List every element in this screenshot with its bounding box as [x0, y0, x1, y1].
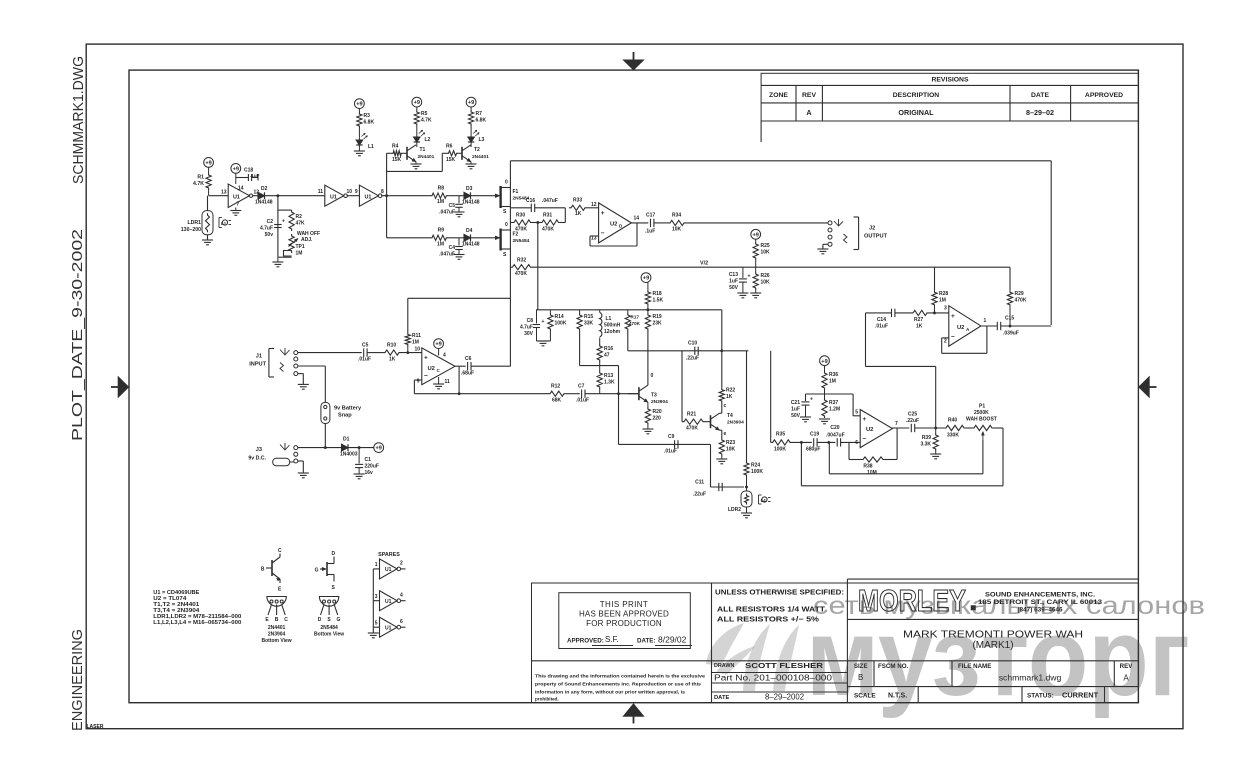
right alignment arrow — [1139, 376, 1157, 397]
wire R24 column from C10 row — [746, 351, 748, 461]
svg-text:.1uF: .1uF — [250, 173, 260, 178]
wire R17 down to C10 row — [627, 331, 629, 351]
resistor R29 470K — [1007, 290, 1026, 325]
wire U2A feedback — [942, 326, 987, 353]
svg-text:470K: 470K — [515, 271, 527, 277]
svg-text:1K: 1K — [389, 357, 396, 363]
svg-text:3: 3 — [375, 594, 378, 600]
resistor R17 470K — [625, 310, 640, 331]
tolerance note panel — [715, 589, 844, 624]
svg-text:R17: R17 — [631, 315, 640, 320]
svg-text:10M: 10M — [867, 470, 877, 476]
power +9 at U1 pin14 — [231, 164, 241, 185]
inverter U1 pin11/10 — [318, 185, 353, 206]
wire junction vertical to LED driver row and R9 row — [386, 153, 388, 238]
wire R30-R31 junction — [533, 221, 541, 224]
svg-text:470K: 470K — [1015, 298, 1027, 304]
svg-text:1: 1 — [375, 562, 378, 568]
svg-text:1uF: 1uF — [791, 407, 800, 413]
ground under R20 — [642, 429, 653, 434]
svg-text:10K: 10K — [672, 227, 682, 233]
wire P1 output loop — [801, 428, 1003, 486]
wire R34 to J2 output jack — [686, 222, 828, 224]
svg-text:0: 0 — [651, 373, 654, 379]
svg-text:2: 2 — [944, 339, 947, 345]
svg-text:+9: +9 — [468, 100, 474, 106]
resistor R31 470K — [540, 213, 565, 233]
svg-text:+9: +9 — [233, 167, 239, 173]
wire V/2 rail — [533, 261, 1011, 268]
svg-text:680pF: 680pF — [806, 447, 820, 453]
resistor R12 68K — [548, 384, 580, 404]
wire R30/R31 junction down to filter bus — [537, 223, 539, 310]
spare inverter U1 pins 1/2 — [373, 559, 405, 579]
svg-text:R40: R40 — [948, 418, 957, 424]
svg-text:SPARES: SPARES — [378, 552, 400, 558]
resistor R24 100K — [744, 461, 763, 491]
svg-text:2N4401: 2N4401 — [472, 154, 489, 160]
svg-text:R28: R28 — [939, 291, 948, 297]
title block outline — [532, 579, 1139, 703]
svg-text:.01uF: .01uF — [358, 357, 371, 363]
resistor R8 1M — [430, 186, 448, 206]
resistor R26 10K — [753, 267, 770, 293]
svg-text:R5: R5 — [421, 111, 428, 117]
svg-text:музторг: музторг — [806, 596, 1190, 719]
wire C9 row — [617, 392, 710, 444]
resistor R5 4.7K — [414, 107, 432, 126]
JFET F1 2N5484 — [494, 180, 530, 216]
svg-text:12ohm: 12ohm — [604, 329, 621, 335]
svg-text:APPROVED:: APPROVED: — [567, 638, 604, 645]
wire filter bus y=310 — [536, 309, 722, 311]
wire battery to D1 row — [298, 424, 342, 449]
svg-text:T1: T1 — [420, 147, 426, 153]
ground under C21 — [800, 417, 811, 422]
margin text SCHMMARK1.DWG — [71, 56, 87, 184]
svg-text:D: D — [318, 617, 322, 623]
wire to R6 via stub — [387, 153, 447, 171]
transistor T1 2N4401 — [403, 145, 434, 162]
svg-text:R30: R30 — [516, 213, 525, 219]
svg-text:2: 2 — [400, 561, 403, 567]
wire J3 sleeve ground — [298, 461, 304, 473]
svg-text:1K: 1K — [916, 324, 923, 330]
resistor R19 23K — [645, 313, 662, 331]
capacitor C20 .0047uF — [826, 425, 860, 447]
wire T4 collector to R22 — [720, 403, 722, 413]
svg-text:7: 7 — [895, 421, 898, 427]
capacitor C13 1uF 50V — [729, 267, 751, 293]
wire R31 up to C16 row — [564, 208, 566, 223]
wire U2C output — [455, 366, 466, 394]
margin text ENGINEERING — [70, 629, 86, 731]
wire R9 to D4 — [448, 237, 464, 239]
svg-text:.047uF: .047uF — [439, 210, 455, 216]
svg-text:8/29/02: 8/29/02 — [658, 635, 687, 645]
transistor T2 2N4401 — [459, 145, 490, 162]
svg-text:100K: 100K — [555, 321, 567, 327]
legend TO-92 bottom view 2N5484 — [314, 597, 344, 638]
power +9 above R25 — [751, 229, 761, 239]
svg-text:R26: R26 — [761, 273, 770, 279]
svg-text:R22: R22 — [726, 388, 735, 394]
wire U2D output — [631, 222, 648, 224]
svg-text:9v D.C.: 9v D.C. — [248, 456, 266, 462]
svg-text:C17: C17 — [646, 213, 655, 219]
capacitor C15 .039uF — [997, 316, 1051, 337]
ground under C8 — [538, 341, 549, 346]
resistor R21 470K — [682, 351, 705, 432]
output jack J2 — [828, 217, 888, 250]
svg-text:C1: C1 — [365, 457, 372, 463]
lamp L1 coupling indicator at LDR1 — [219, 218, 231, 228]
resistor R40 330K — [944, 418, 972, 439]
svg-text:+9: +9 — [753, 232, 759, 238]
margin text LASER — [87, 724, 104, 730]
wire right loop vertical x=1051 — [1050, 161, 1052, 325]
svg-text:8: 8 — [381, 189, 384, 195]
svg-text:B: B — [261, 567, 265, 573]
capacitor C9 .01uF — [664, 434, 678, 455]
svg-text:F1: F1 — [513, 189, 519, 195]
svg-text:13: 13 — [221, 190, 227, 196]
svg-text:C4: C4 — [449, 245, 456, 251]
power +9 above R18 — [641, 273, 651, 283]
svg-text:D4: D4 — [466, 228, 473, 234]
svg-text:.047uF: .047uF — [542, 198, 558, 204]
drawing title — [903, 630, 1083, 652]
svg-text:47: 47 — [604, 353, 610, 359]
svg-text:6: 6 — [400, 619, 403, 625]
svg-text:R27: R27 — [914, 317, 923, 323]
capacitor C8 4.7uF 30V — [520, 310, 545, 341]
svg-text:LASER: LASER — [87, 724, 104, 730]
spare inverter U1 pins 5/6 — [373, 617, 405, 637]
wire R8 to D3 — [448, 195, 464, 197]
svg-text:.047uF: .047uF — [439, 252, 455, 258]
svg-text:1.5K: 1.5K — [653, 298, 664, 304]
svg-text:15K: 15K — [446, 157, 456, 163]
svg-text:1.3K: 1.3K — [604, 380, 615, 386]
svg-text:L1,L2,L3,L4 = M16–065734–000: L1,L2,L3,L4 = M16–065734–000 — [153, 620, 241, 626]
wire node R1/LDR1 to U1 pin13 — [209, 195, 229, 197]
wire D3 to F1 gate — [471, 195, 494, 197]
svg-text:TP1: TP1 — [296, 244, 305, 250]
wire R38 feedback loop — [849, 428, 897, 460]
svg-text:c: c — [724, 403, 727, 409]
wire C8/R14 ground link — [537, 340, 551, 342]
op-amp U2A — [944, 306, 986, 347]
capacitor C17 .1uF — [645, 213, 668, 235]
wire U2A input loop from below — [866, 313, 936, 428]
transistor T4 2N3904 — [705, 403, 744, 437]
power +9 for T2 stage — [466, 97, 476, 107]
svg-text:1M: 1M — [437, 199, 444, 205]
svg-text:2N3904: 2N3904 — [651, 399, 668, 405]
svg-text:R32: R32 — [517, 258, 526, 264]
wire bus right end down to C10 row — [721, 310, 723, 388]
resistor R3 6.8K — [357, 109, 375, 129]
resistor R27 1K — [911, 310, 949, 329]
svg-text:U1: U1 — [385, 625, 392, 631]
svg-text:C19: C19 — [810, 432, 819, 438]
svg-text:L1: L1 — [368, 144, 374, 150]
svg-text:.22uF: .22uF — [686, 356, 699, 362]
svg-text:2N3904: 2N3904 — [268, 632, 286, 638]
capacitor C5 .047uF to ground — [439, 196, 463, 216]
svg-text:REVISIONS: REVISIONS — [931, 77, 968, 84]
svg-text:G: G — [315, 568, 319, 574]
disclaimer text — [535, 674, 706, 702]
resistor R22 1K — [719, 388, 735, 404]
svg-text:+: + — [748, 273, 751, 279]
resistor R9 1M — [430, 228, 448, 248]
spare inverter U1 pins 3/4 — [373, 591, 405, 611]
svg-text:R19: R19 — [653, 314, 662, 320]
svg-text:V/2: V/2 — [700, 261, 708, 267]
svg-text:4.7uF: 4.7uF — [520, 325, 533, 331]
svg-text:15K: 15K — [392, 157, 402, 163]
ground under R23 — [716, 459, 727, 464]
wire J1 tip to C5 — [298, 352, 362, 354]
svg-text:Bottom View: Bottom View — [314, 632, 344, 638]
svg-text:2N5484: 2N5484 — [513, 238, 530, 244]
wire U2A output to C15 — [981, 325, 997, 327]
wire R29 branch from V/2 — [1009, 267, 1011, 290]
svg-text:This drawing and the informati: This drawing and the information contain… — [535, 674, 706, 679]
svg-text:9: 9 — [355, 189, 358, 195]
wire U2D feedback — [590, 223, 637, 246]
wire C11 row — [711, 444, 745, 487]
ground under R39 — [930, 454, 941, 459]
wire U1 out to D2 — [253, 195, 258, 197]
capacitor C11 .22uF — [693, 480, 722, 498]
svg-text:U1: U1 — [330, 195, 337, 201]
drawn / part number / date rows — [714, 661, 833, 702]
svg-text:1M: 1M — [939, 298, 946, 304]
legend JFET symbol — [315, 551, 336, 591]
svg-text:J2: J2 — [869, 226, 875, 232]
svg-text:R35: R35 — [776, 432, 785, 438]
capacitor C18 .1uF — [236, 168, 260, 182]
svg-text:.039uF: .039uF — [1003, 331, 1019, 337]
svg-text:C9: C9 — [668, 434, 675, 440]
svg-text:8–29–2002: 8–29–2002 — [765, 693, 804, 702]
svg-text:.22uF: .22uF — [906, 418, 919, 424]
watermark: muztorg large text — [806, 596, 1190, 719]
svg-text:prohibited.: prohibited. — [535, 697, 559, 702]
wire J1 to battery rail — [298, 366, 326, 402]
left alignment arrow — [111, 376, 129, 397]
svg-text:T4: T4 — [727, 413, 733, 419]
resistor R36 1M — [822, 366, 838, 394]
svg-text:REV: REV — [802, 92, 816, 99]
svg-text:U2: U2 — [866, 427, 873, 433]
transistor T3 2N3904 — [628, 373, 668, 405]
svg-text:4: 4 — [400, 592, 403, 598]
svg-text:+: + — [424, 354, 428, 361]
svg-text:.68uF: .68uF — [461, 371, 474, 377]
inner border frame — [129, 70, 1138, 703]
svg-text:DATE: DATE — [714, 695, 729, 701]
capacitor C1 220uF 16v — [355, 448, 379, 476]
svg-text:2N5484: 2N5484 — [320, 625, 338, 631]
bottom center alignment arrow — [623, 704, 644, 724]
ground under LDR1 — [202, 240, 213, 245]
svg-text:.22uF: .22uF — [693, 492, 706, 498]
wire T4 emitter down — [720, 430, 722, 438]
svg-text:1M: 1M — [412, 340, 419, 346]
scale / status row — [854, 691, 1099, 700]
svg-text:6.8K: 6.8K — [476, 118, 487, 124]
svg-text:+: + — [542, 319, 545, 325]
diode D1 1N4003 — [340, 437, 358, 458]
svg-text:R33: R33 — [573, 198, 582, 204]
svg-text:ZONE: ZONE — [769, 92, 788, 99]
svg-text:7: 7 — [237, 202, 240, 208]
capacitor C21 1uF 50V — [791, 397, 813, 420]
svg-text:2N4401: 2N4401 — [418, 154, 435, 160]
photoresistor LDR2 — [728, 491, 752, 513]
svg-text:R16: R16 — [604, 346, 613, 352]
svg-text:1.2M: 1.2M — [829, 407, 840, 413]
svg-text:DATE:: DATE: — [637, 638, 655, 645]
svg-text:C21: C21 — [791, 400, 800, 406]
resistor R35 100K — [771, 432, 792, 453]
svg-text:100K: 100K — [774, 447, 786, 453]
svg-text:470K: 470K — [515, 227, 527, 233]
svg-text:+: + — [810, 397, 813, 403]
svg-text:D2: D2 — [261, 186, 268, 192]
svg-text:WAH BOOST: WAH BOOST — [966, 417, 997, 423]
svg-text:470K: 470K — [629, 321, 641, 326]
ground at J2 sleeve — [817, 244, 828, 254]
svg-text:C5: C5 — [362, 343, 369, 349]
svg-text:R21: R21 — [687, 412, 696, 418]
svg-text:C10: C10 — [688, 341, 697, 347]
svg-text:4.7K: 4.7K — [421, 118, 432, 124]
svg-text:R7: R7 — [476, 111, 483, 117]
op-amp U2D — [591, 202, 639, 243]
top center alignment arrow — [623, 52, 644, 70]
diode D4 1N4148 — [462, 228, 480, 248]
svg-text:ADJ.: ADJ. — [301, 237, 313, 243]
power +9 node — [374, 443, 384, 453]
resistor R13 1.3K — [597, 362, 615, 394]
wire C20 into U2B pin6 — [859, 440, 861, 442]
outer border frame — [86, 44, 1183, 729]
wire junction to R9 row — [387, 237, 430, 239]
diode D3 1N4148 — [462, 186, 480, 206]
svg-text:14: 14 — [238, 186, 244, 192]
svg-text:+: + — [282, 218, 285, 224]
svg-text:R39: R39 — [922, 435, 931, 441]
inverter U1 pin9/8 — [355, 185, 384, 206]
wire D2 to U1 pin11 — [265, 194, 325, 197]
ground under C2/TP1 — [272, 257, 283, 267]
svg-text:+9: +9 — [205, 161, 211, 167]
power +9 above R36 — [820, 356, 830, 366]
svg-text:−: − — [862, 435, 866, 442]
approved stamp box — [559, 593, 692, 649]
resistor R2 47K — [289, 210, 305, 231]
svg-text:+9: +9 — [643, 276, 649, 282]
resistor R10 1K — [383, 343, 422, 363]
ground under U2C — [433, 377, 444, 389]
svg-text:R11: R11 — [412, 333, 421, 339]
svg-text:1K: 1K — [726, 394, 733, 400]
svg-text:R34: R34 — [672, 213, 681, 219]
svg-text:0: 0 — [505, 222, 508, 228]
svg-text:J1: J1 — [256, 354, 262, 360]
svg-text:Snap: Snap — [338, 413, 352, 419]
svg-text:D3: D3 — [466, 186, 473, 192]
svg-text:8–29–02: 8–29–02 — [1026, 108, 1054, 117]
resistor R15 33K — [577, 310, 594, 331]
svg-text:11: 11 — [445, 379, 451, 385]
svg-text:OUTPUT: OUTPUT — [864, 234, 888, 240]
svg-text:3.3K: 3.3K — [920, 442, 931, 448]
svg-text:FOR PRODUCTION: FOR PRODUCTION — [586, 619, 662, 628]
svg-text:L3: L3 — [479, 137, 485, 143]
svg-text:.01uF: .01uF — [664, 449, 677, 455]
svg-text:Bottom View: Bottom View — [261, 638, 291, 644]
wire into C14 — [866, 312, 892, 314]
svg-text:C8: C8 — [527, 318, 534, 324]
svg-text:R1: R1 — [197, 175, 204, 181]
wire branch to C2/R2 network — [278, 196, 292, 258]
svg-text:L1: L1 — [606, 316, 612, 322]
svg-text:50V: 50V — [729, 285, 739, 291]
svg-text:4.7K: 4.7K — [193, 181, 204, 187]
svg-text:C5: C5 — [449, 203, 456, 209]
resistor R1 — [193, 167, 211, 195]
capacitor C25 .22uF — [906, 412, 944, 433]
resistor R7 6.8K — [469, 107, 487, 126]
resistor R23 10K — [719, 438, 735, 459]
svg-text:R12: R12 — [551, 384, 560, 390]
svg-text:47K: 47K — [296, 221, 306, 227]
svg-text:10: 10 — [414, 347, 420, 353]
svg-text:30V: 30V — [524, 331, 534, 337]
wire T3 collector to R19 — [647, 382, 649, 385]
svg-text:R20: R20 — [653, 409, 662, 415]
svg-text:J3: J3 — [256, 447, 262, 453]
svg-text:4.7uF: 4.7uF — [260, 226, 273, 232]
svg-text:68K: 68K — [552, 398, 562, 404]
DC power jack J3 — [248, 443, 297, 466]
wire R35 feed from C10 row — [770, 351, 772, 443]
resistor R34 10K — [668, 213, 686, 233]
wire main left vertical bus x=510.5 — [509, 161, 511, 366]
svg-text:10K: 10K — [726, 447, 736, 453]
ground at U1 pin7 — [230, 208, 241, 216]
resistor R33 1K — [569, 198, 599, 218]
lamp L2 — [414, 126, 431, 147]
margin text PLOT_DATE_9-30-2002 — [70, 229, 86, 441]
resistor R4 15K — [387, 144, 404, 164]
svg-text:G: G — [337, 617, 341, 623]
resistor R32 470K on V/2 rail — [510, 258, 532, 278]
svg-text:0: 0 — [505, 180, 508, 186]
svg-text:1N4148: 1N4148 — [462, 200, 480, 206]
input jack J1 — [249, 348, 298, 377]
svg-text:information in any form, witho: information in any form, without our pri… — [535, 690, 685, 695]
wire D4 to F2 gate — [471, 237, 494, 239]
svg-text:THIS PRINT: THIS PRINT — [600, 600, 648, 609]
svg-text:.1uF: .1uF — [645, 229, 655, 235]
